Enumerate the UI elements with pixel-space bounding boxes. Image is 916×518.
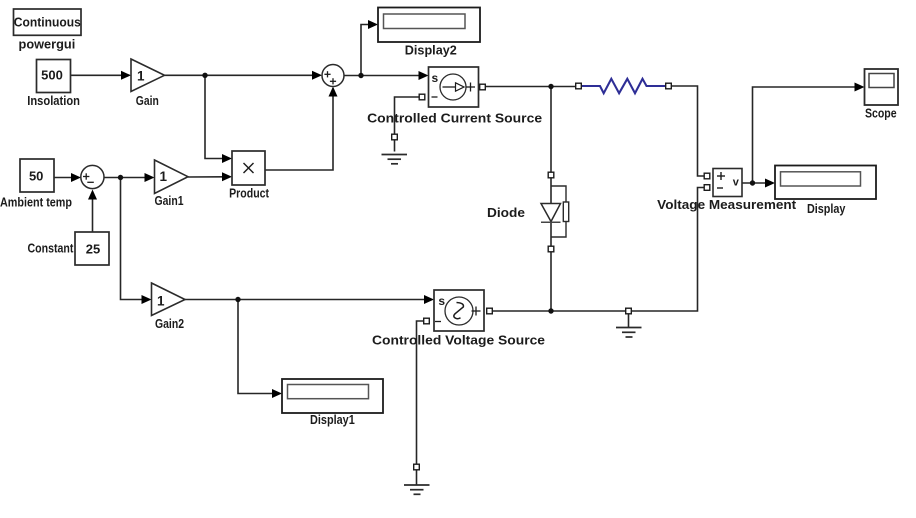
svg-text:1: 1 [157, 294, 165, 309]
svg-text:1: 1 [160, 169, 168, 184]
svg-text:powergui: powergui [19, 37, 76, 52]
svg-text:1: 1 [137, 69, 145, 84]
svg-text:Display1: Display1 [310, 412, 355, 427]
svg-text:Gain2: Gain2 [155, 316, 184, 331]
svg-text:Product: Product [229, 186, 269, 201]
svg-text:v: v [733, 176, 740, 188]
svg-text:Controlled Voltage Source: Controlled Voltage Source [372, 333, 545, 348]
svg-text:s: s [432, 71, 439, 85]
svg-text:Display2: Display2 [405, 43, 457, 58]
svg-text:Ambient temp: Ambient temp [0, 194, 72, 209]
svg-text:Insolation: Insolation [27, 93, 80, 108]
svg-text:Display: Display [807, 201, 846, 216]
svg-text:500: 500 [41, 68, 63, 83]
svg-text:Continuous: Continuous [14, 15, 81, 30]
svg-text:Diode: Diode [487, 205, 525, 220]
svg-text:25: 25 [86, 242, 100, 257]
svg-text:s: s [438, 294, 445, 308]
svg-text:Gain: Gain [136, 93, 159, 108]
svg-text:Constant: Constant [28, 241, 74, 256]
svg-text:50: 50 [29, 168, 43, 183]
svg-text:Gain1: Gain1 [155, 193, 184, 208]
svg-text:Scope: Scope [865, 106, 897, 121]
svg-text:Controlled Current Source: Controlled Current Source [367, 111, 542, 126]
